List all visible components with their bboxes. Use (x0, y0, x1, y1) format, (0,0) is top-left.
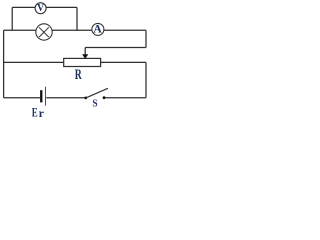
wire left voltmeter vertical (11, 7, 13, 30)
wire rheostat left lead (4, 61, 64, 63)
ammeter circle (92, 23, 104, 35)
svg-text:A: A (93, 23, 102, 35)
wire lamp-ammeter row (4, 29, 146, 31)
wire rheostat right lead (101, 61, 146, 63)
svg-text:r: r (39, 106, 45, 118)
svg-text:V: V (37, 3, 45, 14)
lamp circle (36, 24, 52, 40)
rheostat slider arrowhead (82, 54, 88, 59)
switch right contact dot (103, 96, 106, 99)
wire top voltmeter branch (12, 6, 77, 8)
wire bottom left (battery left lead) (4, 97, 41, 99)
wire left main vertical (3, 30, 5, 98)
battery negative plate (thick short) (40, 90, 42, 102)
rheostat slider arrow shaft (84, 48, 86, 55)
wire right vertical lower (rheostat to bottom row) (145, 62, 147, 97)
battery positive plate (thin long) (45, 87, 47, 106)
svg-text:E: E (32, 105, 38, 118)
switch left contact dot (84, 97, 87, 100)
switch blade (86, 88, 108, 98)
wire right vertical upper (ammeter to slider wire) (145, 30, 147, 47)
svg-text:R: R (75, 67, 82, 83)
lamp cross (39, 27, 49, 37)
wire slider horizontal (85, 47, 146, 49)
svg-text:S: S (92, 98, 97, 110)
wire right voltmeter vertical (node between lamp and ammeter) (76, 7, 78, 30)
rheostat R body (64, 58, 101, 66)
wire battery to switch (46, 97, 85, 99)
voltmeter U-V circle (35, 3, 46, 14)
wire switch to right (104, 97, 146, 99)
